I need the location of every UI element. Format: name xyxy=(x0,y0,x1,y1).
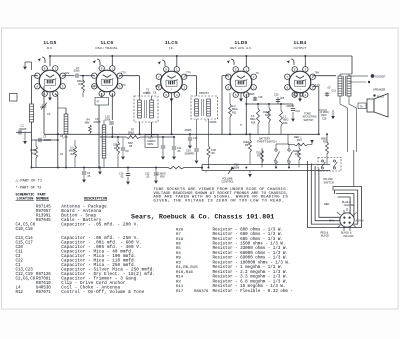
svg-text:R4: R4 xyxy=(176,252,181,256)
svg-text:Capacitor - .05 mfd. - 200 V.: Capacitor - .05 mfd. - 200 V. xyxy=(61,223,139,228)
svg-text:.00025: .00025 xyxy=(286,105,294,108)
svg-text:R11: R11 xyxy=(232,111,237,114)
svg-text:500M: 500M xyxy=(233,167,239,170)
svg-text:C2,C6,C9: C2,C6,C9 xyxy=(16,278,36,282)
svg-text:C21: C21 xyxy=(296,110,301,113)
svg-text:.00008: .00008 xyxy=(93,121,101,124)
svg-text:I.F.: I.F. xyxy=(169,46,174,50)
svg-text:YELLOW: YELLOW xyxy=(343,235,354,238)
svg-text:Resistor - 15 megohm - 1/3 W.: Resistor - 15 megohm - 1/3 W. xyxy=(213,284,286,289)
svg-text:R11: R11 xyxy=(176,285,184,289)
svg-text:37V: 37V xyxy=(121,83,126,87)
svg-text:C20: C20 xyxy=(274,94,279,97)
svg-text:R87071: R87071 xyxy=(36,291,51,295)
svg-text:R18: R18 xyxy=(176,238,184,242)
svg-text:Resistor - 180000 ohms - 1/3 W: Resistor - 180000 ohms - 1/3 W. xyxy=(213,260,291,265)
svg-text:R20: R20 xyxy=(176,228,184,232)
svg-text:R17: R17 xyxy=(257,155,262,158)
svg-text:R7: R7 xyxy=(176,233,181,237)
svg-text:500V.: 500V. xyxy=(148,143,155,146)
svg-text:Resistor - 600 ohms - 1/3 W: Resistor - 600 ohms - 1/3 W. xyxy=(213,227,283,232)
svg-text:R16: R16 xyxy=(283,122,288,125)
svg-text:R88376: R88376 xyxy=(194,290,209,294)
svg-text:R15: R15 xyxy=(265,114,270,117)
svg-text:C13,C23: C13,C23 xyxy=(16,269,34,273)
svg-text:.0008: .0008 xyxy=(104,119,111,122)
svg-text:Sears, Roebuck & Co. Chassis 1: Sears, Roebuck & Co. Chassis 101.801 xyxy=(131,213,274,220)
svg-text:C11: C11 xyxy=(16,251,24,255)
svg-text:NUMBER: NUMBER xyxy=(36,198,50,202)
svg-text:Resistor - Flexible - 0.32 ohm: Resistor - Flexible - 0.32 ohm - xyxy=(213,289,293,294)
svg-text:R87081: R87081 xyxy=(36,278,51,282)
svg-text:GIVEN, THE VOLTAGE IS ZERO OR: GIVEN, THE VOLTAGE IS ZERO OR TOO LOW TO… xyxy=(153,199,284,203)
svg-text:R87045: R87045 xyxy=(36,219,51,223)
svg-text:R17: R17 xyxy=(176,290,184,294)
svg-text:R14: R14 xyxy=(251,121,256,124)
svg-text:C20: C20 xyxy=(16,246,24,250)
svg-text:C13: C13 xyxy=(332,90,337,93)
svg-text:C10,C18: C10,C18 xyxy=(16,228,34,232)
svg-text:DESCRIPTION: DESCRIPTION xyxy=(84,198,107,202)
svg-text:Resistor - 1 megohm - 1/3 W.: Resistor - 1 megohm - 1/3 W. xyxy=(213,265,283,270)
svg-text:Resistor - 2.2 megohm - 1/3 W.: Resistor - 2.2 megohm - 1/3 W. xyxy=(213,270,288,275)
svg-text:R3: R3 xyxy=(176,261,181,265)
svg-text:R1,R6,R15: R1,R6,R15 xyxy=(176,266,198,270)
svg-text:R14: R14 xyxy=(176,276,184,280)
svg-text:R13: R13 xyxy=(297,139,302,142)
svg-text:R12: R12 xyxy=(16,291,24,295)
svg-text:C13,C14: C13,C14 xyxy=(16,237,34,241)
svg-text:77V: 77V xyxy=(186,71,191,75)
svg-text:R87126: R87126 xyxy=(36,273,51,277)
svg-text:L4: L4 xyxy=(16,287,21,291)
svg-text:C15,C17: C15,C17 xyxy=(16,242,34,246)
svg-text:A 1½ V.: A 1½ V. xyxy=(356,218,365,222)
svg-text:DET. AVC. A.F.: DET. AVC. A.F. xyxy=(230,46,252,50)
svg-text:24V: 24V xyxy=(155,84,160,88)
svg-text:C14: C14 xyxy=(193,137,198,140)
svg-text:.00025: .00025 xyxy=(19,127,27,131)
svg-text:OSC./ TRANSL.: OSC./ TRANSL. xyxy=(95,46,118,50)
svg-text:.00025: .00025 xyxy=(184,129,192,132)
svg-text:R5: R5 xyxy=(176,247,181,251)
svg-text:.00025: .00025 xyxy=(209,121,217,124)
svg-text:C25: C25 xyxy=(322,117,327,120)
svg-text:Resistor - 6.8 megohm - 1/3 W.: Resistor - 6.8 megohm - 1/3 W. xyxy=(213,279,288,284)
svg-text:R87145: R87145 xyxy=(36,206,51,210)
svg-text:SPEAKER: SPEAKER xyxy=(373,88,385,92)
svg-text:C3: C3 xyxy=(43,135,47,139)
svg-text:R18: R18 xyxy=(295,153,300,156)
svg-text:Resistor - 69000 ohms - 1/3 W: Resistor - 69000 ohms - 1/3 W. xyxy=(213,256,288,261)
svg-text:C12,C19: C12,C19 xyxy=(16,273,34,277)
svg-text:94R530: 94R530 xyxy=(36,287,51,291)
svg-text:BLACK: BLACK xyxy=(321,235,330,238)
svg-text:R.F.: R.F. xyxy=(47,46,53,50)
svg-text:ON-OFF: ON-OFF xyxy=(323,177,333,181)
svg-text:THRIFT SWITCH: THRIFT SWITCH xyxy=(257,141,277,144)
svg-text:7V: 7V xyxy=(256,71,259,75)
svg-text:R10: R10 xyxy=(160,176,165,179)
svg-text:C1: C1 xyxy=(16,264,21,268)
svg-text:.00025: .00025 xyxy=(247,93,255,96)
svg-text:78V: 78V xyxy=(315,71,320,75)
svg-text:*-PART OF T2: *-PART OF T2 xyxy=(16,185,42,190)
svg-text:OUTPUT: OUTPUT xyxy=(293,46,306,50)
svg-text:C1: C1 xyxy=(21,124,25,128)
svg-text:LOCATION: LOCATION xyxy=(17,198,34,202)
svg-text:SWITCH: SWITCH xyxy=(324,180,334,184)
svg-text:C2: C2 xyxy=(47,112,51,116)
svg-text:Resistor - 1500 ohms - 1/3 W: Resistor - 1500 ohms - 1/3 W. xyxy=(213,241,286,246)
svg-text:C22: C22 xyxy=(16,260,24,264)
svg-text:C4,C5,C8: C4,C5,C8 xyxy=(16,224,36,228)
svg-text:Resistor - 3.3 megohm - 1/3 W.: Resistor - 3.3 megohm - 1/3 W. xyxy=(213,275,288,280)
svg-text:455KC: 455KC xyxy=(199,92,207,95)
svg-text:△-PART OF T1: △-PART OF T1 xyxy=(16,179,43,184)
svg-text:△ C5: △ C5 xyxy=(62,136,68,139)
svg-text:.00065: .00065 xyxy=(43,138,51,142)
svg-text:R22: R22 xyxy=(323,141,328,144)
svg-text:R8: R8 xyxy=(176,242,181,246)
svg-text:1MEG: 1MEG xyxy=(77,81,84,83)
svg-text:SOCKET: SOCKET xyxy=(375,75,386,79)
svg-text:Resistor - 685 ohms - 1/3 W: Resistor - 685 ohms - 1/3 W. xyxy=(213,237,283,242)
svg-text:R2: R2 xyxy=(176,280,181,284)
svg-text:CONTROL: CONTROL xyxy=(222,181,235,184)
svg-text:455KC: 455KC xyxy=(143,92,151,95)
svg-text:24V: 24V xyxy=(92,84,97,88)
svg-text:.005: .005 xyxy=(280,97,285,100)
svg-text:Resistor - 33000 ohms - 1/3 W: Resistor - 33000 ohms - 1/3 W. xyxy=(213,246,288,251)
svg-text:7A: 7A xyxy=(360,105,363,108)
svg-text:C18: C18 xyxy=(258,96,263,99)
svg-text:R87057: R87057 xyxy=(36,210,51,214)
svg-text:R10,R16: R10,R16 xyxy=(176,271,193,275)
svg-text:.004MFD: .004MFD xyxy=(184,153,194,156)
svg-text:C7: C7 xyxy=(76,66,80,70)
svg-text:C3: C3 xyxy=(16,255,21,259)
svg-text:90 V.: 90 V. xyxy=(329,219,335,222)
svg-text:SWITCH: SWITCH xyxy=(304,119,314,122)
svg-text:RED: RED xyxy=(324,203,329,206)
svg-text:Resistor - 68000 ohms - 1/3 W: Resistor - 68000 ohms - 1/3 W. xyxy=(213,251,288,256)
svg-text:R13991: R13991 xyxy=(36,215,51,219)
svg-text:YELLOW: YELLOW xyxy=(344,204,355,207)
svg-text:R87610: R87610 xyxy=(36,282,51,286)
svg-text:56M: 56M xyxy=(85,122,90,125)
svg-text:24V: 24V xyxy=(65,71,70,75)
svg-text:Resistor - 680 ohms - 1/3 W: Resistor - 680 ohms - 1/3 W. xyxy=(213,232,283,237)
svg-text:77V: 77V xyxy=(121,71,126,75)
svg-text:Control - On-Off, Volume & Ton: Control - On-Off, Volume & Tone xyxy=(61,290,144,295)
svg-text:R9: R9 xyxy=(176,257,181,261)
